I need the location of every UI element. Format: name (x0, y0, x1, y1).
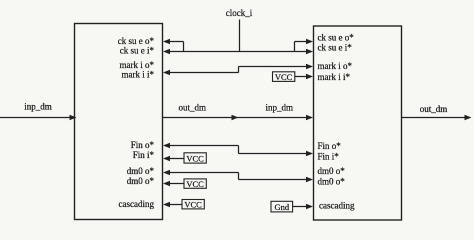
wire out_dm bus out of U2 (402, 115, 472, 120)
wire V2 to left Fin i* (163, 156, 184, 161)
svg-text:ck su e i*: ck su e i* (120, 46, 155, 56)
wire V1 to right mark i i* (295, 74, 313, 79)
Gnd source G1 (to right cascading) (271, 201, 293, 212)
svg-text:VCC: VCC (186, 179, 204, 189)
svg-text:VCC: VCC (184, 199, 202, 209)
svg-text:Fin i*: Fin i* (133, 150, 155, 160)
wire V3 to left dm0 o* (163, 181, 184, 186)
svg-text:VCC: VCC (186, 153, 204, 163)
wire out_dm/inp_dm bus between U1 and U2 (163, 115, 314, 120)
VCC source V2 (to left Fin i*) (184, 153, 206, 164)
wire dm0 crossover (left dm0 o* to right dm0 o*) (163, 170, 313, 182)
wire ck net long horizontal (left ck su e i* to right ck su e i*) (163, 49, 313, 54)
wire G1 to right cascading (293, 204, 313, 209)
svg-text:out_dm: out_dm (179, 103, 207, 113)
wire inp_dm bus into U1 (0, 115, 77, 120)
block U1 (left device) (75, 24, 163, 220)
svg-text:mark i i*: mark i i* (318, 72, 351, 82)
svg-text:dm0 o*: dm0 o* (127, 176, 155, 186)
svg-text:clock_i: clock_i (226, 8, 253, 18)
svg-text:inp_dm: inp_dm (266, 103, 294, 113)
block U2 (right device) (314, 26, 402, 220)
svg-text:inp_dm: inp_dm (24, 102, 52, 112)
wire Fin crossover (left Fin o* to right Fin i*) (163, 143, 313, 156)
svg-text:mark i o*: mark i o* (120, 60, 155, 70)
wire V4 to left cascading (163, 202, 182, 207)
svg-text:Fin o*: Fin o* (131, 140, 155, 150)
svg-text:mark i i*: mark i i* (122, 70, 155, 80)
svg-text:VCC: VCC (275, 72, 293, 82)
wire clock_i vertical drop (239, 20, 241, 52)
svg-text:Fin o*: Fin o* (318, 141, 342, 151)
wire mark crossover (right mark i o* to left mark i i*) (163, 64, 313, 75)
VCC source V1 (top right) (273, 72, 295, 82)
svg-text:dm0 o*: dm0 o* (318, 176, 346, 186)
svg-text:dm0 o*: dm0 o* (318, 166, 346, 176)
svg-text:Fin i*: Fin i* (318, 152, 340, 162)
svg-text:out_dm: out_dm (420, 104, 448, 114)
svg-text:Gnd: Gnd (274, 202, 289, 212)
svg-text:ck su e o*: ck su e o* (318, 33, 355, 43)
VCC source V3 (to left dm0 o*) (184, 179, 206, 189)
svg-text:cascading: cascading (319, 201, 355, 211)
svg-text:cascading: cascading (119, 199, 155, 209)
svg-text:ck su e o*: ck su e o* (118, 36, 155, 46)
wire ck su e o* stub (right block) (295, 39, 314, 52)
svg-text:dm0 o*: dm0 o* (127, 166, 155, 176)
VCC source V4 (to left cascading) (182, 199, 204, 209)
svg-text:mark i o*: mark i o* (318, 61, 353, 71)
wire ck su e o* stub (left block) (163, 39, 184, 52)
svg-text:ck su e i*: ck su e i* (318, 43, 353, 53)
